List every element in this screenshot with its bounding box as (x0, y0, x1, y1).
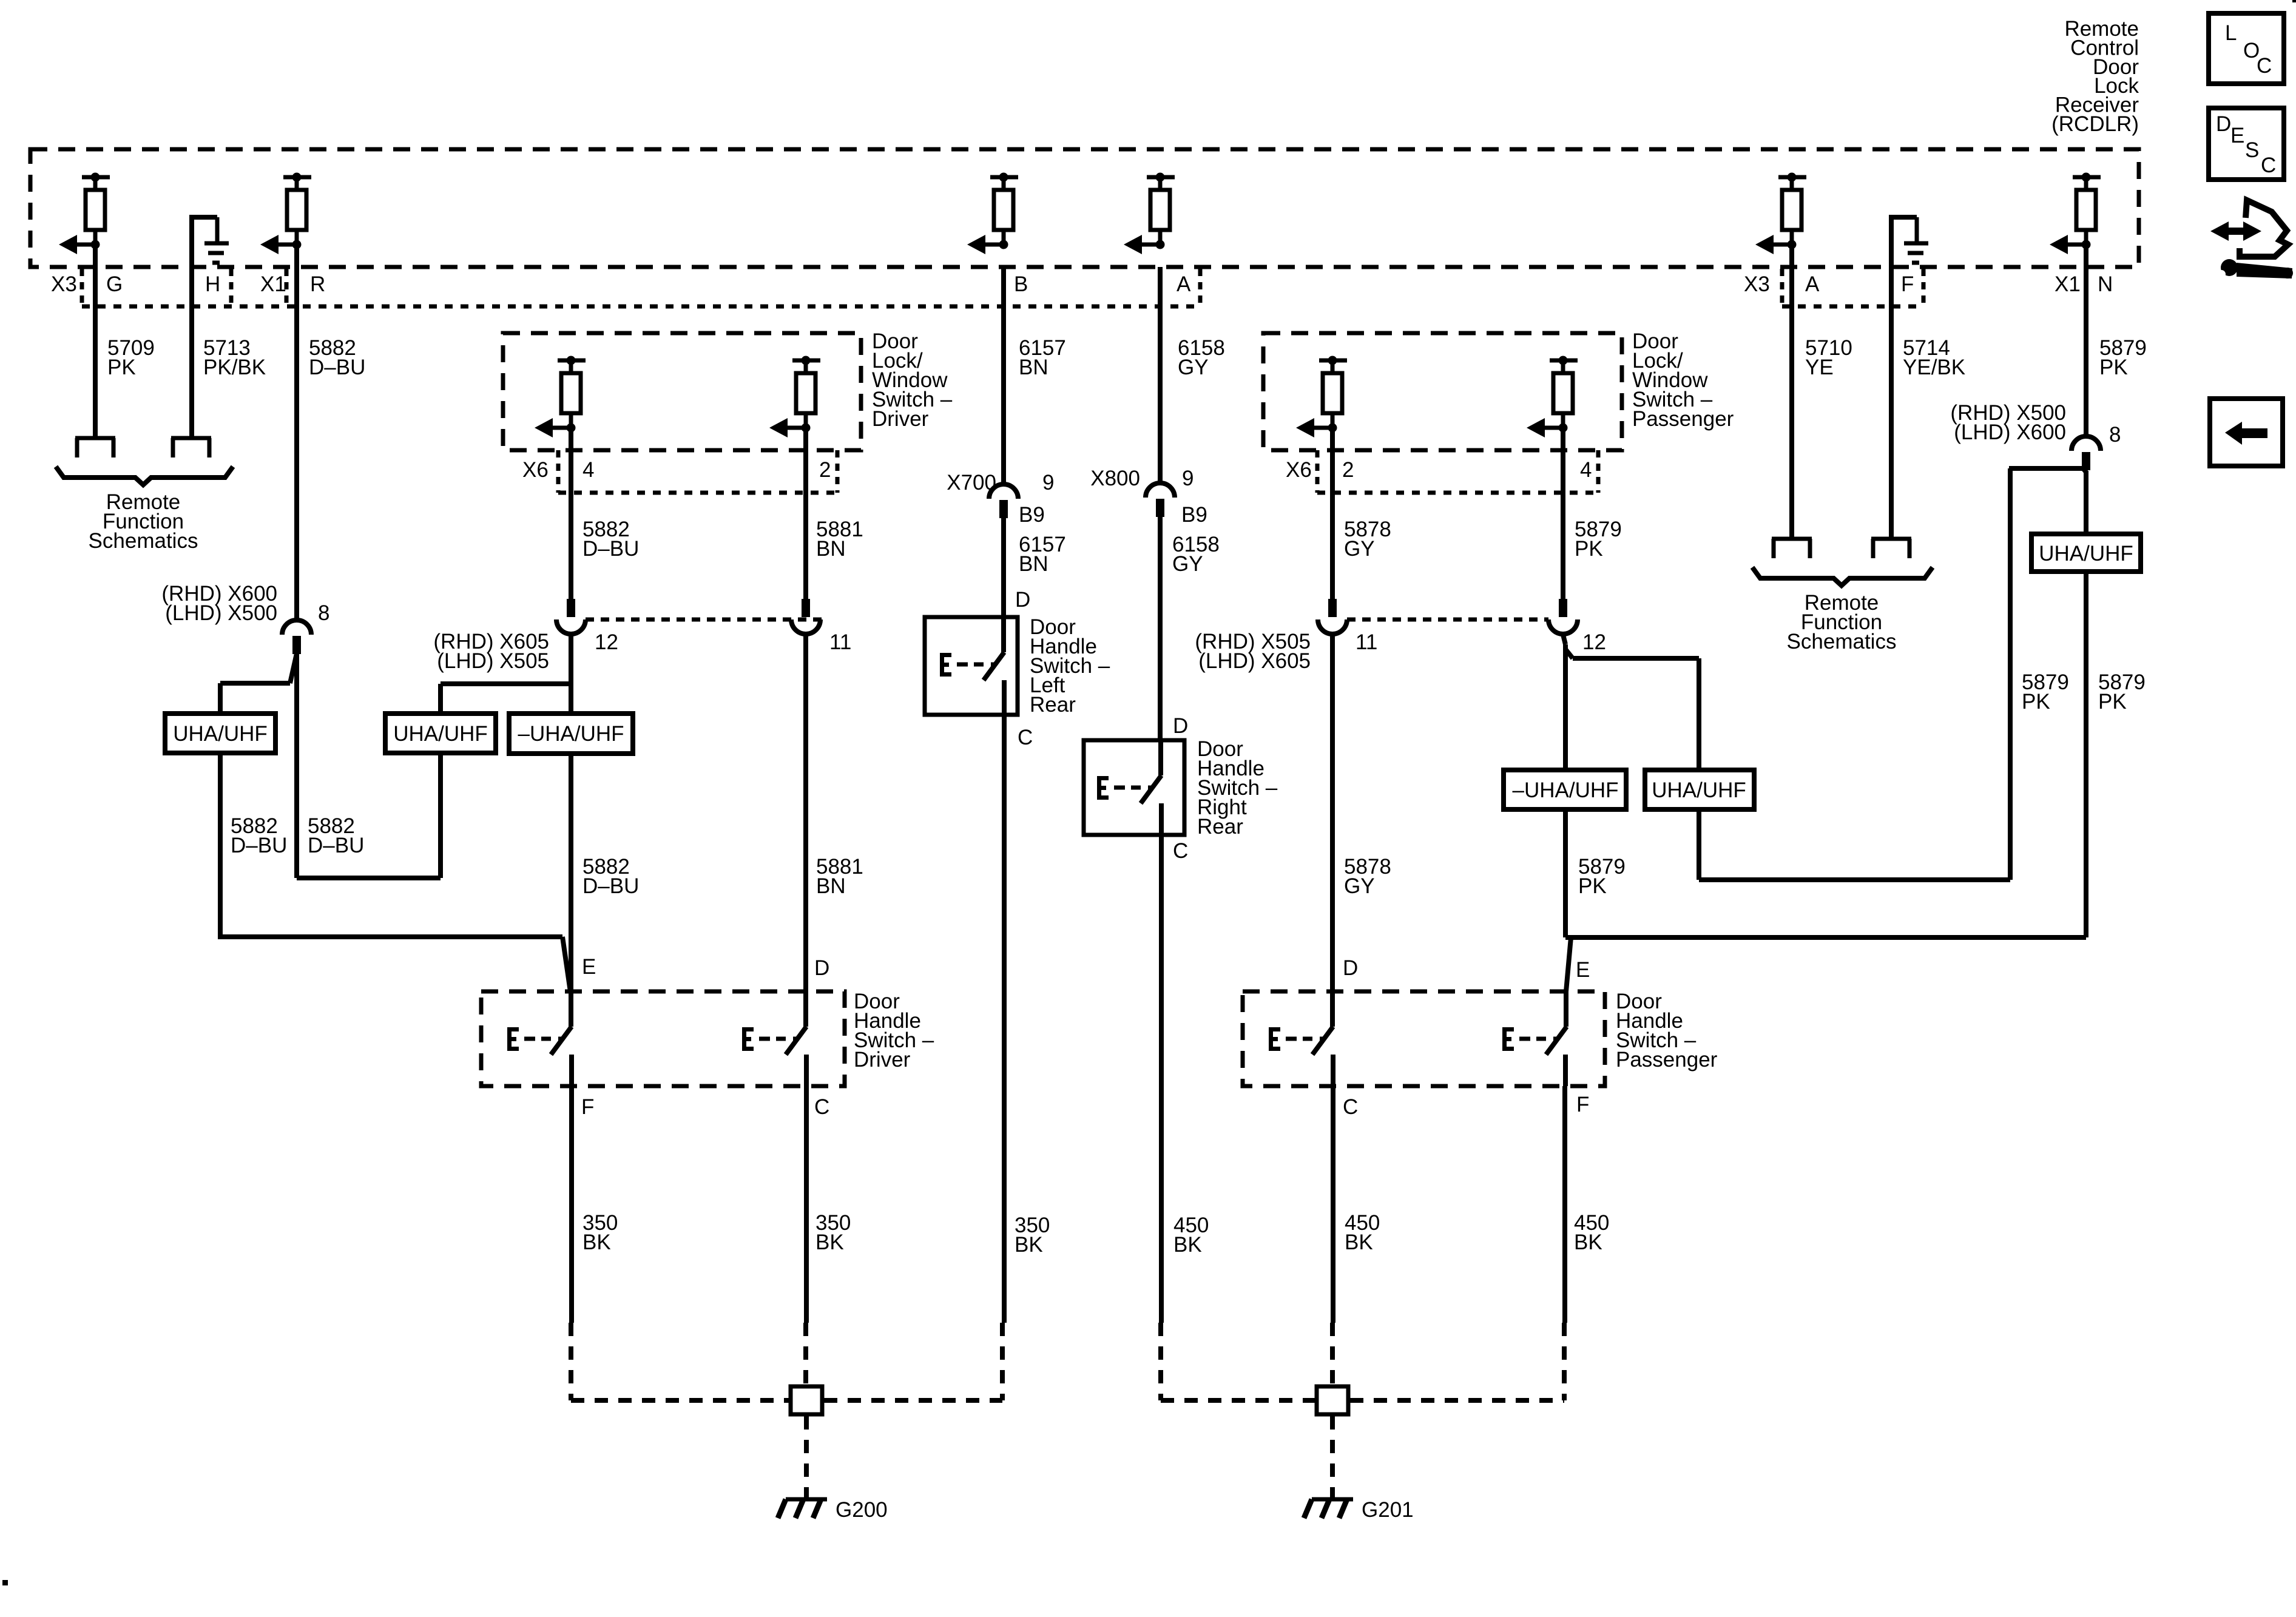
svg-text:E: E (582, 955, 596, 979)
svg-text:D: D (1015, 588, 1030, 612)
svg-text:N: N (2098, 272, 2113, 296)
svg-text:E: E (2230, 124, 2244, 147)
svg-text:Driver: Driver (854, 1048, 911, 1072)
svg-text:(LHD) X605: (LHD) X605 (1198, 649, 1311, 673)
svg-text:B: B (1014, 272, 1028, 296)
svg-text:2: 2 (1342, 458, 1354, 482)
svg-text:4: 4 (582, 458, 594, 482)
svg-text:(LHD) X600: (LHD) X600 (1954, 420, 2066, 444)
svg-text:X6: X6 (522, 458, 549, 482)
svg-text:UHA/UHF: UHA/UHF (173, 722, 268, 746)
svg-text:GY: GY (1178, 356, 1209, 379)
svg-text:Passenger: Passenger (1616, 1048, 1718, 1072)
svg-text:Driver: Driver (872, 407, 929, 431)
svg-text:(LHD) X505: (LHD) X505 (437, 649, 549, 673)
svg-text:B9: B9 (1019, 503, 1045, 527)
svg-text:11: 11 (1356, 630, 1377, 654)
svg-text:BN: BN (1019, 552, 1048, 576)
svg-text:8: 8 (2109, 423, 2121, 447)
svg-text:Schematics: Schematics (89, 529, 198, 553)
svg-text:YE/BK: YE/BK (1903, 356, 1965, 379)
svg-text:Schematics: Schematics (1787, 630, 1897, 653)
svg-text:(RCDLR): (RCDLR) (2051, 112, 2139, 136)
svg-text:8: 8 (318, 601, 329, 625)
svg-text:A: A (1177, 272, 1191, 296)
svg-text:11: 11 (829, 630, 851, 654)
svg-text:9: 9 (1182, 467, 1194, 490)
svg-text:D–BU: D–BU (308, 834, 364, 857)
svg-text:PK: PK (1578, 874, 1607, 898)
svg-text:BN: BN (1019, 356, 1048, 379)
svg-text:BK: BK (1574, 1230, 1602, 1254)
svg-text:X700: X700 (947, 471, 996, 495)
svg-text:C: C (2257, 54, 2272, 78)
svg-text:BK: BK (1015, 1233, 1043, 1257)
svg-text:X1: X1 (2055, 272, 2081, 296)
svg-text:E: E (1576, 958, 1590, 982)
svg-text:S: S (2245, 138, 2259, 162)
svg-text:D–BU: D–BU (582, 874, 639, 898)
svg-text:D–BU: D–BU (309, 356, 365, 379)
svg-text:D: D (2216, 112, 2231, 136)
svg-text:D: D (1343, 956, 1358, 980)
svg-text:R: R (310, 272, 325, 296)
svg-text:G200: G200 (836, 1498, 888, 1522)
svg-text:GY: GY (1172, 552, 1203, 576)
svg-text:B9: B9 (1181, 503, 1207, 527)
svg-text:X3: X3 (51, 272, 77, 296)
svg-text:BN: BN (816, 537, 846, 561)
svg-text:G201: G201 (1362, 1498, 1414, 1522)
svg-text:G: G (106, 272, 123, 296)
svg-text:C: C (1343, 1095, 1358, 1119)
svg-text:UHA/UHF: UHA/UHF (393, 722, 488, 746)
svg-text:A: A (1805, 272, 1820, 296)
svg-text:GY: GY (1344, 537, 1375, 561)
svg-text:BN: BN (816, 874, 846, 898)
svg-text:D: D (1173, 714, 1188, 738)
svg-text:GY: GY (1344, 874, 1375, 898)
svg-text:C: C (2261, 154, 2276, 177)
svg-text:F: F (1901, 272, 1914, 296)
svg-text:BK: BK (1173, 1233, 1202, 1257)
svg-text:9: 9 (1042, 471, 1054, 495)
svg-text:F: F (581, 1095, 594, 1119)
svg-text:D–BU: D–BU (231, 834, 287, 857)
svg-text:Rear: Rear (1197, 815, 1243, 839)
svg-text:–UHA/UHF: –UHA/UHF (1512, 778, 1618, 802)
svg-text:D: D (814, 956, 829, 980)
svg-text:PK: PK (107, 356, 136, 379)
svg-text:X800: X800 (1090, 467, 1140, 490)
svg-text:C: C (1173, 839, 1188, 863)
svg-text:BK: BK (582, 1230, 611, 1254)
svg-text:2: 2 (819, 458, 831, 482)
svg-text:YE: YE (1805, 356, 1834, 379)
svg-text:(LHD) X500: (LHD) X500 (165, 601, 277, 625)
svg-text:L: L (2225, 21, 2237, 45)
svg-text:PK: PK (2098, 690, 2127, 714)
svg-text:BK: BK (815, 1230, 844, 1254)
svg-text:4: 4 (1580, 458, 1592, 482)
svg-text:12: 12 (595, 630, 618, 654)
svg-text:BK: BK (1345, 1230, 1373, 1254)
svg-text:F: F (1576, 1093, 1589, 1116)
svg-text:X1: X1 (260, 272, 286, 296)
svg-text:PK: PK (2099, 356, 2128, 379)
svg-text:PK/BK: PK/BK (203, 356, 266, 379)
svg-text:H: H (205, 272, 220, 296)
svg-text:UHA/UHF: UHA/UHF (1652, 778, 1746, 802)
svg-text:–UHA/UHF: –UHA/UHF (518, 722, 624, 746)
svg-text:Rear: Rear (1030, 693, 1076, 717)
svg-text:X6: X6 (1286, 458, 1312, 482)
svg-text:C: C (1018, 726, 1033, 749)
svg-text:Passenger: Passenger (1632, 407, 1734, 431)
svg-text:PK: PK (2022, 690, 2050, 714)
svg-text:12: 12 (1582, 630, 1606, 654)
svg-text:UHA/UHF: UHA/UHF (2039, 542, 2133, 565)
svg-text:D–BU: D–BU (582, 537, 639, 561)
svg-text:C: C (814, 1095, 829, 1119)
svg-text:PK: PK (1575, 537, 1603, 561)
svg-text:X3: X3 (1744, 272, 1770, 296)
